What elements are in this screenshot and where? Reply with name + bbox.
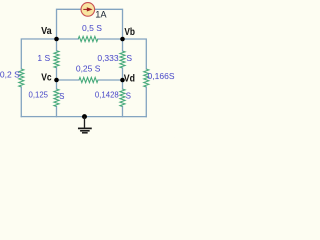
svg-text:1A: 1A: [95, 9, 107, 19]
node Va dot: [54, 37, 59, 42]
wire Vc to 0.125S resistor: [55, 80, 57, 89]
svg-text:0,2 S: 0,2 S: [0, 69, 20, 79]
node Vc dot: [54, 78, 59, 83]
svg-text:0,125: 0,125: [28, 90, 48, 99]
svg-text:0,1428: 0,1428: [95, 90, 119, 99]
svg-text:1 S: 1 S: [37, 53, 50, 63]
svg-text:Vc: Vc: [41, 72, 52, 83]
wire right branch lower: [145, 87, 147, 117]
svg-text:0,5 S: 0,5 S: [82, 23, 102, 33]
wire Va to 0.5S zigzag: [57, 38, 79, 40]
resistor 0.2S zigzag (left branch): [19, 69, 24, 87]
wire 0.125S resistor to bottom rail: [55, 106, 57, 116]
svg-text:Vb: Vb: [124, 27, 135, 38]
svg-text:S: S: [126, 53, 132, 63]
resistor 0.25S zigzag (Vc-Vd): [79, 77, 98, 82]
wire 0.333S resistor to Vd: [121, 68, 123, 80]
wire 1S resistor to Vc: [55, 68, 57, 80]
resistor 0.125S zigzag (below Vc): [54, 89, 59, 107]
resistor 0.5S zigzag (Va-Vb): [78, 36, 98, 41]
resistor 0.1428S zigzag (below Vd): [120, 89, 125, 107]
ground: [78, 117, 92, 133]
wire Vb to right branch corner: [122, 39, 146, 69]
resistor 0.166S zigzag (right branch): [144, 69, 149, 87]
svg-text:S: S: [59, 92, 64, 101]
wire row Va left to left branch corner: [21, 39, 56, 69]
resistor 1S zigzag (Va-Vc): [54, 51, 59, 68]
svg-text:S: S: [126, 92, 131, 101]
wire Vb to 0.333S resistor: [122, 39, 124, 51]
svg-text:0,333: 0,333: [97, 53, 119, 63]
ground junction dot: [82, 114, 87, 119]
node Vd dot: [120, 78, 125, 83]
svg-text:0,166S: 0,166S: [148, 71, 175, 81]
wire left branch lower: [20, 87, 22, 117]
current source 1A: [81, 3, 95, 17]
svg-text:Va: Va: [41, 26, 52, 37]
wire Vc to 0.25S zigzag: [56, 79, 78, 81]
wire Va to 1S resistor: [56, 39, 58, 51]
wire 0.25S zigzag to Vd: [98, 79, 122, 81]
wire 0.1428S resistor to bottom rail: [121, 107, 123, 117]
wire 0.5S zigzag to Vb: [98, 38, 123, 40]
wire bottom rail: [21, 116, 146, 118]
svg-text:0,25 S: 0,25 S: [76, 64, 101, 74]
node Vb dot: [120, 37, 125, 42]
svg-text:Vd: Vd: [124, 74, 135, 85]
wire Vd to 0.1428S resistor: [121, 80, 123, 89]
wire top rail: [57, 9, 123, 39]
resistor 0.333S zigzag (Vb-Vd): [120, 51, 125, 68]
